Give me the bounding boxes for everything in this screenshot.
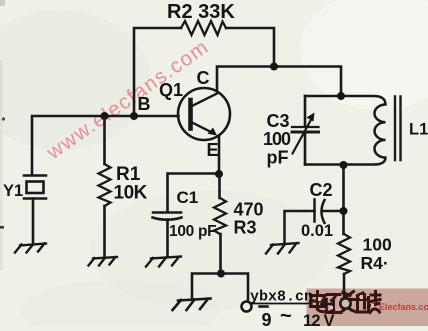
svg-text:10K: 10K: [114, 183, 148, 204]
node C2 junction: [340, 207, 348, 215]
svg-text:100: 100: [363, 235, 392, 255]
svg-text:C: C: [197, 68, 210, 88]
svg-text:R4·: R4·: [361, 253, 389, 273]
node tank top junction: [337, 92, 345, 100]
ground (below C2): [266, 243, 299, 254]
svg-text:pF: pF: [267, 148, 289, 168]
tank circuit top/bottom rails and coil L1: [305, 96, 386, 165]
svg-text:Y1: Y1: [3, 182, 23, 200]
resistor R2: [181, 21, 226, 35]
wire R1 top: [103, 116, 106, 164]
ground (main, below bottom rail): [173, 299, 211, 311]
scan smudge left edge: [0, 60, 3, 270]
wire base rail: [32, 116, 179, 174]
terminal positive: [340, 298, 350, 308]
node collector junction: [270, 63, 278, 71]
svg-text:C3: C3: [267, 111, 290, 131]
svg-text:E: E: [207, 140, 219, 160]
svg-text:0.01: 0.01: [301, 222, 333, 240]
wire tank left lower: [304, 133, 307, 165]
svg-text:C1: C1: [177, 188, 199, 207]
svg-text:470: 470: [234, 200, 264, 220]
wire collector rail: [217, 67, 341, 97]
label plus: [322, 299, 332, 309]
wire C1 to ground: [166, 220, 169, 257]
wire R4 bottom: [343, 274, 346, 298]
label minus: [260, 305, 268, 308]
svg-text:R2 33K: R2 33K: [167, 1, 235, 23]
ground (below C1): [146, 257, 181, 267]
svg-text:R3: R3: [234, 218, 257, 238]
block distress speckles: [318, 295, 374, 309]
wire R4 top: [342, 211, 345, 234]
node B junction R2: [130, 112, 138, 120]
svg-text:12 V: 12 V: [303, 312, 335, 326]
watermark block bottom-right: [307, 289, 428, 327]
scan speck left: [2, 117, 5, 120]
svg-text:100 pF: 100 pF: [169, 223, 216, 240]
svg-text:B: B: [138, 94, 151, 114]
transistor Q1: [178, 88, 230, 140]
watermark chinese characters 电子发烧友: [311, 292, 381, 313]
wire emitter: [218, 136, 221, 174]
terminal negative: [242, 302, 252, 312]
wire Y1 to ground: [32, 199, 35, 244]
wire R1 bottom: [103, 206, 106, 257]
resistor R3: [214, 198, 226, 234]
wire emitter to C1: [168, 174, 220, 213]
crystal Y1: [24, 176, 46, 199]
wire top feedback (R2 branch): [134, 28, 274, 116]
wire bottom rail: [192, 274, 248, 302]
ground (below R1): [89, 257, 118, 266]
label ybx8.cn underline: [252, 303, 311, 305]
node tank bottom junction: [340, 161, 348, 169]
wire R3 bottom: [219, 234, 222, 273]
wire R3 top: [218, 174, 221, 198]
capacitor C1: [153, 213, 182, 220]
wire tank left upper: [304, 96, 307, 127]
scan speck top corner: [0, 0, 5, 6]
svg-text:L1: L1: [409, 121, 428, 139]
svg-text:C2: C2: [310, 180, 333, 200]
capacitor C2: [285, 200, 344, 243]
node B junction R1: [101, 112, 109, 120]
resistor R1: [99, 164, 111, 206]
resistor R4: [338, 234, 350, 274]
node R3 bottom junction: [217, 270, 225, 278]
svg-text:9: 9: [262, 310, 272, 326]
node emitter junction: [215, 170, 223, 178]
svg-text:100: 100: [263, 129, 291, 149]
capacitor C3 (variable): [292, 113, 319, 154]
ground (below Y1): [15, 244, 46, 253]
svg-text:~: ~: [280, 305, 292, 326]
svg-text:Q1: Q1: [159, 80, 183, 100]
scan speck left edge dash: [0, 226, 4, 229]
svg-text:Elecfans.com: Elecfans.com: [379, 302, 428, 312]
inductor core lines: [395, 97, 401, 161]
wire tank to C2 node: [342, 165, 345, 211]
watermark www.elecfans.com (pink diagonal): [42, 35, 213, 165]
